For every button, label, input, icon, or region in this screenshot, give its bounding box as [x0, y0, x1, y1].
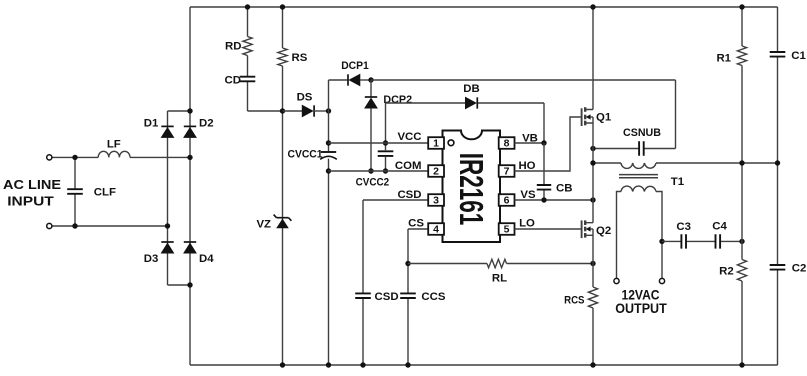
- label VB: [522, 132, 538, 144]
- svg-text:COM: COM: [395, 160, 422, 172]
- svg-text:5: 5: [504, 224, 510, 236]
- svg-text:T1: T1: [671, 176, 685, 188]
- junction CS column / RL row: [405, 261, 410, 266]
- pin number 7: [504, 166, 510, 178]
- zener VZ: [274, 215, 292, 229]
- svg-text:DB: DB: [463, 83, 479, 95]
- wire DB left column (to VCC/CVCC2): [385, 103, 387, 171]
- junction VS row / half-bridge: [590, 197, 595, 202]
- junction top rail / R1: [739, 4, 744, 9]
- wire CSD column: [362, 200, 364, 365]
- transistor Q2: [582, 220, 593, 238]
- wire top rail: [190, 6, 778, 8]
- label CVCC1: [288, 149, 324, 161]
- resistor RS: [278, 48, 287, 66]
- junction COM row / CVCC2: [383, 168, 388, 173]
- junction COM row / CVCC1: [326, 168, 331, 173]
- junction COM row / DCP2: [368, 168, 373, 173]
- inductor LF: [98, 151, 130, 157]
- wire bridge left column (D1/D3): [167, 111, 169, 285]
- transformer T1 secondary winding: [621, 186, 656, 191]
- wire bridge bottom: [168, 284, 191, 286]
- pin box 7 (right): [499, 165, 515, 177]
- IC part number IR2161: [453, 153, 490, 226]
- label LF: [107, 138, 121, 150]
- svg-text:LO: LO: [519, 218, 535, 230]
- junction RL row / half-bridge column: [590, 261, 595, 266]
- wire DS anode: [283, 110, 303, 112]
- wire T1 secondary right leg: [656, 192, 662, 279]
- pin number 8: [504, 138, 510, 150]
- node DCP1/DCP2/snubber: [368, 77, 373, 82]
- svg-text:CD: CD: [225, 75, 241, 87]
- pin number 4: [433, 224, 439, 236]
- junction bottom rail / R2: [739, 362, 744, 367]
- svg-text:RL: RL: [492, 273, 507, 285]
- wire VCC row: [329, 142, 430, 144]
- label Q1: [596, 112, 612, 124]
- label D2: [199, 117, 214, 129]
- label CCS: [421, 291, 445, 303]
- junction C4 / R2 column: [739, 239, 744, 244]
- wire CLF column: [74, 157, 76, 226]
- diode DS: [302, 105, 314, 116]
- label RCS: [564, 294, 585, 306]
- label C2: [792, 263, 807, 275]
- label 12VAC: [622, 288, 660, 303]
- svg-text:Q1: Q1: [596, 112, 612, 124]
- pin number 2: [433, 166, 439, 178]
- wire CSNUB horizontal: [593, 148, 676, 150]
- wire half-bridge column: [592, 7, 594, 365]
- svg-text:R2: R2: [719, 266, 734, 278]
- svg-text:RD: RD: [225, 40, 241, 52]
- wire DCP1 anode to node: [360, 79, 371, 81]
- wire left column (bridge D2/D4 column, top rail to bottom rail): [189, 7, 191, 365]
- svg-text:DS: DS: [297, 91, 313, 103]
- junction bottom rail / CVCC1 column: [326, 362, 331, 367]
- label VCC: [397, 131, 421, 143]
- svg-text:IR2161: IR2161: [453, 153, 490, 226]
- junction bottom rail / CSD column: [360, 362, 365, 367]
- capacitor CVCC2: [378, 151, 394, 156]
- transformer T1 core: [619, 175, 658, 178]
- svg-text:CS: CS: [408, 217, 424, 229]
- label DS: [297, 91, 313, 103]
- svg-text:6: 6: [504, 195, 510, 207]
- label Q2: [596, 225, 611, 237]
- pin box 3 (left): [428, 194, 444, 206]
- label HO: [518, 160, 535, 172]
- junction DS cathode / CVCC1 column: [326, 108, 331, 113]
- wire charge-pump rail to snubber (y=80): [371, 79, 676, 81]
- junction top rail / half-bridge: [590, 4, 595, 9]
- label LO: [519, 218, 535, 230]
- label CLF: [94, 187, 116, 199]
- capacitor C3: [681, 234, 686, 248]
- label VS: [520, 189, 536, 201]
- label DCP1: [341, 60, 369, 72]
- svg-text:1: 1: [433, 138, 439, 150]
- label T1: [671, 176, 685, 188]
- junction AC top / CLF: [72, 155, 77, 160]
- capacitor CCS: [400, 293, 416, 298]
- wire CS column: [407, 229, 409, 365]
- capacitor CB: [537, 185, 551, 190]
- transformer T1 primary winding: [621, 163, 656, 168]
- wire AC line top (terminal to bridge): [52, 156, 190, 158]
- capacitor CD: [240, 77, 256, 82]
- pin number 5: [504, 224, 510, 236]
- diode D4: [184, 242, 196, 253]
- wire DB right column (to VB): [543, 103, 545, 143]
- svg-text:D3: D3: [144, 253, 159, 265]
- svg-text:RCS: RCS: [564, 294, 585, 306]
- svg-text:2: 2: [433, 166, 439, 178]
- svg-text:INPUT: INPUT: [7, 194, 54, 209]
- pin number 3: [433, 195, 439, 207]
- pin number 6: [504, 195, 510, 207]
- junction top rail / RS column: [280, 4, 285, 9]
- junction T1 primary / half-bridge: [590, 160, 595, 165]
- junction bridge top / left column: [187, 108, 192, 113]
- svg-text:AC LINE: AC LINE: [3, 177, 61, 192]
- label OUTPUT: [615, 301, 667, 316]
- svg-text:C1: C1: [791, 50, 806, 62]
- wire T1 secondary left leg: [617, 192, 622, 279]
- pin box 2 (left): [428, 165, 444, 177]
- capacitor C2: [770, 265, 786, 270]
- svg-text:HO: HO: [518, 160, 535, 172]
- svg-text:LF: LF: [107, 138, 121, 150]
- svg-text:VZ: VZ: [256, 218, 271, 230]
- label D4: [199, 253, 214, 265]
- terminal 12VAC output left: [614, 278, 619, 283]
- svg-text:3: 3: [433, 195, 439, 207]
- svg-text:RS: RS: [292, 52, 308, 64]
- junction bottom rail / RCS: [590, 362, 595, 367]
- label INPUT: [7, 194, 54, 209]
- svg-text:DCP2: DCP2: [383, 94, 412, 106]
- junction bridge bottom / left column: [187, 282, 192, 287]
- svg-text:CVCC2: CVCC2: [356, 177, 390, 189]
- label D3: [144, 253, 159, 265]
- label CVCC2: [356, 177, 390, 189]
- IC pin1 indicator dot: [448, 140, 454, 146]
- junction VS row / CB: [541, 197, 546, 202]
- svg-text:R1: R1: [716, 52, 731, 64]
- terminal AC line bottom: [47, 223, 52, 228]
- svg-text:DCP1: DCP1: [341, 60, 369, 72]
- label RD: [225, 40, 241, 52]
- svg-text:CSNUB: CSNUB: [623, 127, 661, 139]
- junction bottom rail / VZ column: [280, 362, 285, 367]
- wire DB row (y=103): [386, 102, 545, 104]
- label AC LINE: [3, 177, 61, 192]
- resistor RCS: [588, 287, 597, 308]
- svg-text:VS: VS: [520, 189, 536, 201]
- junction CSNUB / half-bridge node: [590, 146, 595, 151]
- diode D3: [161, 242, 173, 253]
- terminal 12VAC output right: [659, 278, 664, 283]
- junction bottom rail / CCS column: [405, 362, 410, 367]
- label CD: [225, 75, 241, 87]
- pin box 8 (right): [499, 137, 515, 149]
- resistor R1: [737, 46, 746, 66]
- diode D2: [184, 126, 196, 137]
- label C4: [712, 221, 727, 233]
- label RS: [292, 52, 308, 64]
- label C3: [676, 221, 691, 233]
- junction AC bottom / D1 column: [165, 223, 170, 228]
- resistor RL: [487, 259, 507, 267]
- label R1: [716, 52, 731, 64]
- wire CSNUB right column: [675, 80, 677, 149]
- svg-text:C3: C3: [676, 221, 691, 233]
- wire bottom rail: [190, 364, 778, 366]
- diode DCP1: [348, 74, 360, 85]
- wire VS row: [515, 199, 594, 201]
- wire RL row: [408, 263, 593, 265]
- label DCP2: [383, 94, 412, 106]
- wire bridge top: [168, 110, 191, 112]
- pin box 4 (left): [428, 223, 444, 235]
- diode D1: [161, 126, 173, 137]
- wire RD/CD column: [248, 7, 283, 111]
- diode DCP2: [365, 97, 377, 108]
- wire CB column: [543, 143, 545, 200]
- wire C3/C4 row: [662, 240, 742, 242]
- svg-text:CSD: CSD: [375, 291, 399, 303]
- svg-text:CLF: CLF: [94, 187, 116, 199]
- wire CVCC1 column: [328, 80, 330, 365]
- junction DS wire / RS column: [280, 108, 285, 113]
- junction primary row / R1R2 column: [739, 160, 744, 165]
- svg-text:VB: VB: [522, 132, 538, 144]
- svg-text:D2: D2: [199, 117, 214, 129]
- pin box 5 (right): [499, 223, 515, 235]
- svg-text:OUTPUT: OUTPUT: [615, 301, 667, 316]
- label RL: [492, 273, 507, 285]
- junction VCC row / CVCC1: [326, 140, 331, 145]
- label C1: [791, 50, 806, 62]
- capacitor CLF: [67, 189, 83, 194]
- pin box 6 (right): [499, 194, 515, 206]
- svg-text:CVCC1: CVCC1: [288, 149, 324, 161]
- capacitor CVCC1 (polarized): [320, 152, 337, 159]
- junction secondary right leg / C3 row: [659, 239, 664, 244]
- svg-text:CB: CB: [556, 182, 572, 194]
- terminal AC line top: [47, 155, 52, 160]
- wire VB row: [515, 142, 545, 144]
- label CSD cap: [375, 291, 399, 303]
- junction top rail / RD column: [245, 4, 250, 9]
- svg-text:4: 4: [433, 224, 439, 236]
- svg-text:VCC: VCC: [397, 131, 421, 143]
- label R2: [719, 266, 734, 278]
- wire DCP1 cathode stub: [329, 79, 349, 81]
- svg-text:C4: C4: [712, 221, 727, 233]
- op-amp U1 IR2161 body: [443, 131, 501, 243]
- junction primary row / C1C2 column: [775, 160, 780, 165]
- label CSNUB: [623, 127, 661, 139]
- wire LO row to Q2 gate: [515, 228, 582, 230]
- svg-text:C2: C2: [792, 263, 807, 275]
- svg-text:8: 8: [504, 138, 510, 150]
- label VZ: [256, 218, 271, 230]
- wire DCP2 column: [370, 80, 372, 171]
- svg-text:D1: D1: [144, 117, 159, 129]
- wire AC line bottom (terminal to bridge): [52, 225, 168, 227]
- capacitor CSNUB: [639, 141, 644, 155]
- wire T1 primary row: [593, 162, 778, 164]
- wire RS/VZ column: [282, 7, 284, 365]
- svg-text:CSD: CSD: [397, 189, 421, 201]
- label CS pin: [408, 217, 424, 229]
- junction AC top / D2 column: [187, 155, 192, 160]
- wire DS cathode: [314, 110, 329, 112]
- capacitor C1: [770, 52, 786, 57]
- wire C1/C2 column: [777, 7, 779, 365]
- wire COM row: [329, 170, 430, 172]
- diode DB: [465, 97, 477, 108]
- label DB: [463, 83, 479, 95]
- svg-text:D4: D4: [199, 253, 214, 265]
- resistor RD: [243, 37, 252, 56]
- wire CSD row: [363, 199, 429, 201]
- pin number 1: [433, 138, 439, 150]
- label D1: [144, 117, 159, 129]
- label CB: [556, 182, 572, 194]
- svg-text:Q2: Q2: [596, 225, 611, 237]
- junction AC bottom / CLF: [72, 223, 77, 228]
- junction VCC row / CVCC2: [383, 140, 388, 145]
- wire R1/R2 column: [741, 7, 743, 365]
- pin box 1 (left): [428, 137, 444, 149]
- svg-text:CCS: CCS: [421, 291, 445, 303]
- label COM: [395, 160, 422, 172]
- wire CS row: [408, 228, 429, 230]
- resistor R2: [737, 260, 746, 282]
- node VB / DB / CB: [541, 140, 546, 145]
- capacitor C4: [716, 234, 721, 248]
- transistor Q1: [582, 107, 593, 126]
- label CSD pin: [397, 189, 421, 201]
- wire HO row and riser to Q1 gate: [515, 117, 582, 171]
- capacitor CSD: [355, 293, 371, 298]
- svg-text:7: 7: [504, 166, 510, 178]
